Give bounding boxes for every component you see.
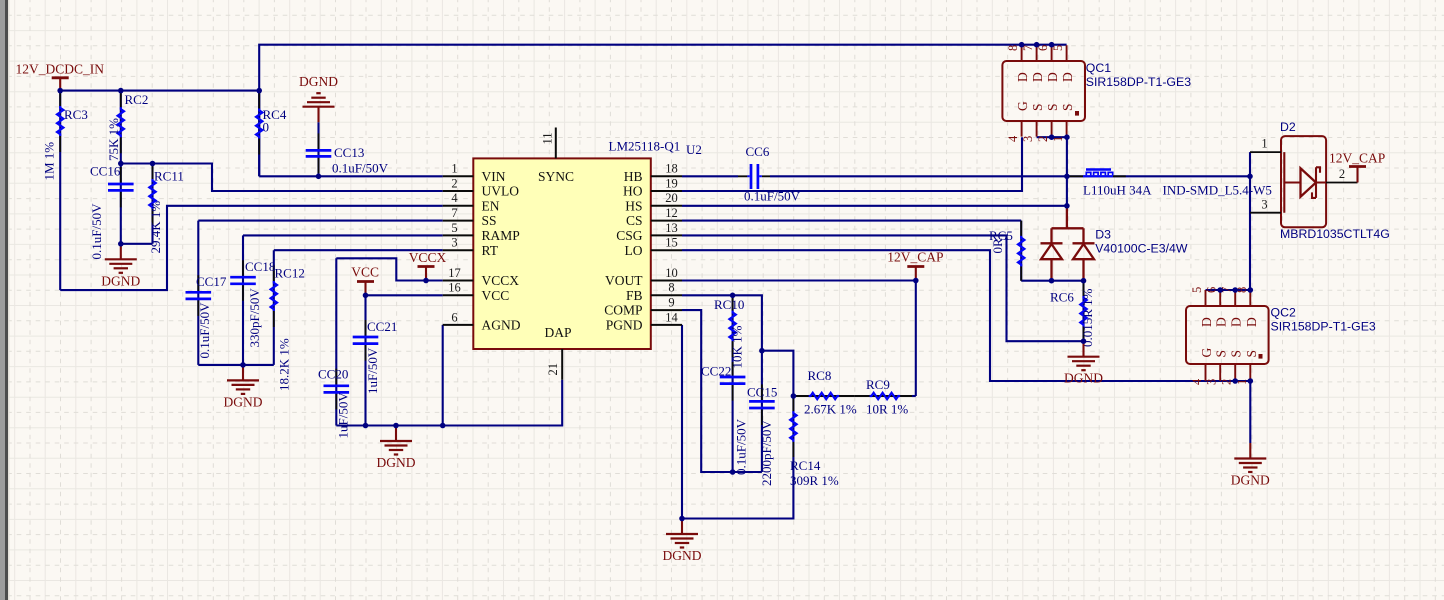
svg-text:19: 19 [665,176,678,190]
node junction 10 [240,362,246,368]
svg-text:15: 15 [665,236,678,250]
svg-text:18.2K 1%: 18.2K 1% [277,338,292,391]
node junction 3 [256,88,262,94]
ground DGND under QC2 [1234,443,1266,472]
capacitor CC6 [738,164,770,189]
ground DGND under RC6 [1068,341,1100,370]
svg-text:PGND: PGND [606,318,643,333]
svg-text:QC1: QC1 [1086,61,1111,75]
wire QC2 drain top [1206,289,1251,291]
svg-text:HS: HS [625,198,642,213]
resistor RC12 [271,250,277,365]
svg-text:SS: SS [482,213,497,228]
svg-text:0.1uF/50V: 0.1uF/50V [734,418,749,475]
svg-text:SYNC: SYNC [538,169,574,184]
node junction 7 [316,174,322,180]
node junction 14 [913,278,919,284]
svg-text:10: 10 [665,266,678,280]
svg-text:13: 13 [665,221,678,235]
diode D2 schottky symbol [1284,152,1326,213]
QC2 pin1 marker [1259,354,1263,359]
wire VOUT [682,279,916,281]
svg-text:S: S [1244,350,1259,358]
svg-text:D3: D3 [1095,228,1111,242]
ground DGND above CC13 [303,93,335,122]
svg-text:RC10: RC10 [714,297,744,312]
svg-text:1M 1%: 1M 1% [42,142,57,181]
node junction 6 [118,241,124,247]
capacitor CC20 [324,258,350,425]
svg-text:DGND: DGND [101,273,140,288]
svg-text:S: S [1060,103,1075,111]
svg-text:HB: HB [624,169,643,184]
wire DAP to rail [443,380,563,426]
svg-text:12: 12 [665,206,678,220]
QC2 pin stubs [1206,290,1251,381]
node junction 2 [118,88,124,94]
svg-text:1: 1 [1261,137,1267,151]
svg-text:VCCX: VCCX [409,250,447,265]
transistor QC1 body [1002,61,1085,121]
svg-text:D: D [1030,72,1045,82]
wire FB to RC8 node [762,351,794,396]
wire AGND rail [336,325,442,426]
svg-text:RT: RT [482,243,499,258]
svg-text:D: D [1015,72,1030,82]
resistor RC6 [1080,281,1086,342]
svg-text:S: S [1030,103,1045,111]
wire VCC [366,294,443,296]
resistor RC5 [1018,221,1024,281]
node junction 31 [1217,287,1223,293]
power port 12V_CAP at D2 [1349,167,1366,183]
wire RC5 bottom [1021,280,1083,282]
node junction 35 [1248,378,1254,384]
wire RC3 bottom [59,152,61,290]
svg-text:CC6: CC6 [746,144,770,159]
wire CSG [682,235,1084,341]
node junction 24 [1064,134,1070,140]
capacitor CC21 [353,295,379,425]
resistor RC4 [256,91,262,177]
node junction 13 [440,423,446,429]
svg-text:DGND: DGND [1064,371,1103,386]
svg-text:16: 16 [448,281,461,295]
svg-text:DAP: DAP [545,325,572,340]
svg-text:AGND: AGND [482,318,521,333]
resistor RC11 [149,164,155,244]
svg-text:12V_CAP: 12V_CAP [1329,151,1385,166]
svg-text:2: 2 [1036,136,1050,142]
inductor L1 [1067,170,1126,177]
svg-text:20: 20 [665,191,678,205]
svg-text:CC21: CC21 [367,319,397,334]
svg-text:17: 17 [448,266,461,280]
svg-text:VCC: VCC [351,264,379,279]
wire 12V_DCDC_IN horizontal [60,90,259,92]
svg-text:0.015R 1%: 0.015R 1% [1080,288,1095,347]
svg-text:L110uH 34A: L110uH 34A [1083,182,1152,197]
svg-text:RC12: RC12 [275,266,305,281]
svg-text:CC22: CC22 [701,364,731,379]
svg-text:IND-SMD_L5.4-W5: IND-SMD_L5.4-W5 [1163,182,1272,197]
capacitor CC16 [108,164,134,244]
wire CS [682,220,1021,222]
svg-text:3: 3 [1205,379,1219,385]
wire FB [682,295,762,350]
capacitor CC18 [230,235,256,365]
op-amp U2 LM25118-Q1 body [473,158,651,349]
svg-text:7: 7 [451,206,457,220]
node junction 27 [1064,203,1070,209]
svg-text:SIR158DP-T1-GE3: SIR158DP-T1-GE3 [1271,320,1376,334]
svg-text:EN: EN [482,198,500,213]
svg-text:5: 5 [451,221,457,235]
svg-text:VCCX: VCCX [482,273,520,288]
node junction 5 [150,161,156,167]
QC1 pin1 marker [1075,111,1079,116]
wire RAMP [243,234,443,236]
svg-text:CC16: CC16 [90,164,121,179]
svg-text:1: 1 [451,162,457,176]
node junction 17 [791,393,797,399]
capacitor CC13 [306,122,332,176]
svg-text:14: 14 [665,310,678,324]
svg-text:CC13: CC13 [334,145,364,160]
svg-text:RC9: RC9 [866,377,890,392]
svg-text:CC17: CC17 [196,274,227,289]
node junction 22 [1049,42,1055,48]
wire SS [198,220,442,222]
transistor QC2 body [1186,306,1269,364]
svg-text:0: 0 [263,120,270,135]
svg-text:18: 18 [665,162,678,176]
resistor RC9 [854,393,912,399]
power port VCCX [418,267,435,281]
svg-text:11: 11 [541,132,555,144]
node junction 18 [730,469,736,475]
QC1 pin stubs [1022,45,1067,136]
svg-text:D2: D2 [1280,120,1296,134]
svg-text:DGND: DGND [299,74,338,89]
svg-text:4: 4 [451,191,458,205]
node junction 15 [730,293,736,299]
svg-text:330pF/50V: 330pF/50V [247,288,262,348]
node junction 11 [363,423,369,429]
svg-text:29.4K 1%: 29.4K 1% [148,201,163,254]
resistor RC14 [790,396,796,457]
wire CC17 rail [198,364,273,366]
svg-text:4: 4 [1190,378,1204,385]
svg-text:VCC: VCC [482,288,510,303]
wire 12V_DCDC_IN top run [259,45,1066,177]
node junction 28 [1049,278,1055,284]
wire VCCX [336,258,442,280]
svg-text:0.1uF/50V: 0.1uF/50V [197,302,212,359]
svg-text:0.1uF/50V: 0.1uF/50V [332,161,389,176]
svg-text:CC18: CC18 [245,259,275,274]
svg-text:G: G [1015,101,1030,111]
node junction 32 [1232,287,1238,293]
svg-text:D: D [1244,317,1259,327]
wire HB to CC6 [682,175,738,177]
svg-text:RC2: RC2 [125,92,149,107]
svg-text:DGND: DGND [224,394,263,409]
svg-text:CC20: CC20 [318,367,348,382]
svg-text:0.1uF/50V: 0.1uF/50V [89,203,104,260]
svg-text:DGND: DGND [1231,473,1270,488]
node junction 1 [57,88,63,94]
diode D3 dual common-cathode [1041,206,1095,281]
wire switch node [770,175,1250,177]
resistor RC3 [57,91,63,152]
resistor RC10 [729,295,735,362]
wire EN [60,206,443,290]
svg-text:8: 8 [668,281,674,295]
svg-text:2200pF/50V: 2200pF/50V [759,420,774,486]
power port VCC [357,282,374,296]
node junction 33 [1248,287,1254,293]
svg-text:RC6: RC6 [1050,290,1074,305]
svg-text:RAMP: RAMP [482,228,520,243]
wire UVLO jog [121,164,443,192]
svg-text:75K 1%: 75K 1% [106,118,121,161]
svg-text:D: D [1060,72,1075,82]
svg-text:CSG: CSG [616,228,643,243]
svg-text:D: D [1229,317,1244,327]
svg-text:VOUT: VOUT [605,273,643,288]
svg-text:D: D [1045,72,1060,82]
node junction 9 [363,293,369,299]
node junction 20 [1019,42,1025,48]
wire RC9 corner [912,395,916,397]
svg-text:5: 5 [1190,287,1204,293]
svg-text:DGND: DGND [663,548,702,563]
svg-text:12V_CAP: 12V_CAP [887,250,943,265]
svg-text:0R: 0R [990,238,1005,254]
svg-text:4: 4 [1006,135,1020,142]
svg-text:DGND: DGND [377,455,416,470]
svg-text:LO: LO [625,243,643,258]
diode D2 body [1281,136,1326,227]
svg-text:RC11: RC11 [154,169,184,184]
svg-text:6: 6 [1205,287,1219,293]
wire HO [682,137,1022,191]
capacitor CC17 [186,221,212,365]
svg-text:1uF/50V: 1uF/50V [365,347,380,394]
svg-text:6: 6 [451,310,457,324]
power port 12V_DCDC_IN [52,78,69,91]
ground DGND under AGND rail [380,426,412,455]
wire CC16-RC11 rail [121,243,153,245]
U2 pin stubs [443,128,682,380]
svg-text:3: 3 [451,236,457,250]
svg-text:21: 21 [546,363,560,376]
capacitor CC15 [749,351,775,472]
node junction 16 [759,348,765,354]
node junction 30 [1081,338,1087,344]
svg-text:S: S [1229,350,1244,358]
node junction 8 [423,278,429,284]
svg-text:MBRD1035CTLT4G: MBRD1035CTLT4G [1280,227,1390,241]
wire RC9 to VOUT [915,281,917,397]
svg-text:CC15: CC15 [747,385,777,400]
svg-text:12V_DCDC_IN: 12V_DCDC_IN [16,61,105,76]
svg-text:U2: U2 [686,142,702,157]
node junction 21 [1034,42,1040,48]
ground DGND under CC16 [105,244,137,273]
node junction 23 [1049,134,1055,140]
ground DGND under PGND [666,519,698,548]
wire COMP [682,310,762,472]
svg-text:VIN: VIN [482,169,506,184]
wire QC2 source to DGND [1249,381,1251,443]
svg-text:G: G [1199,348,1214,358]
svg-text:3: 3 [1021,136,1035,142]
svg-text:9: 9 [668,296,674,310]
svg-text:HO: HO [623,184,643,199]
wire RT [274,249,443,251]
svg-text:D: D [1214,317,1229,327]
svg-text:8: 8 [1006,45,1020,51]
svg-text:1uF/50V: 1uF/50V [336,392,351,439]
svg-text:2.67K 1%: 2.67K 1% [804,402,857,417]
svg-text:V40100C-E3/4W: V40100C-E3/4W [1095,241,1188,255]
resistor RC8 [793,393,854,399]
svg-text:S: S [1214,350,1229,358]
svg-text:2: 2 [451,176,457,190]
ground DGND mid rail [227,365,259,394]
svg-text:10R 1%: 10R 1% [866,402,908,417]
sheet left border [0,0,10,600]
svg-text:D: D [1199,317,1214,327]
svg-text:2: 2 [1339,167,1345,181]
node junction 12 [393,423,399,429]
svg-text:CS: CS [626,213,643,228]
node junction 4 [118,161,124,167]
wire QC1 source bus [1037,136,1067,138]
svg-text:3: 3 [1261,197,1267,211]
svg-text:UVLO: UVLO [482,184,520,199]
wire RC14 bottom [682,457,793,519]
capacitor CC22 [720,362,746,472]
wire HS [682,205,1067,207]
node junction 29 [1081,278,1087,284]
svg-text:2: 2 [1220,379,1234,385]
svg-text:RC3: RC3 [64,107,88,122]
wire LO [682,250,1250,381]
node junction 25 [1064,174,1070,180]
power port 12V_CAP at VOUT [907,267,924,281]
svg-text:SIR158DP-T1-GE3: SIR158DP-T1-GE3 [1086,75,1191,89]
wire VIN [259,175,443,177]
node junction 26 [1247,174,1253,180]
svg-text:S: S [1045,103,1060,111]
wire QC1 source vertical [1066,137,1068,206]
node junction 34 [1232,378,1238,384]
svg-text:LM25118-Q1: LM25118-Q1 [609,139,681,154]
node junction 19 [679,516,685,522]
svg-text:RC14: RC14 [790,458,821,473]
D2 pin stubs [1250,152,1358,213]
resistor RC2 [118,91,124,164]
svg-text:0.1uF/50V: 0.1uF/50V [744,189,801,204]
svg-text:309R 1%: 309R 1% [790,473,839,488]
wire D2 anode vertical [1249,152,1251,290]
svg-text:RC8: RC8 [808,368,832,383]
wire PGND [681,325,683,519]
svg-text:FB: FB [626,288,643,303]
svg-text:QC2: QC2 [1271,306,1296,320]
svg-text:COMP: COMP [604,303,642,318]
